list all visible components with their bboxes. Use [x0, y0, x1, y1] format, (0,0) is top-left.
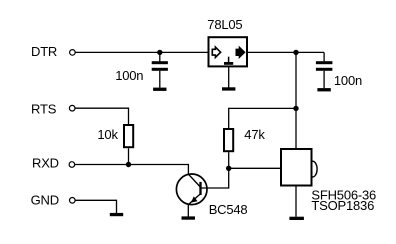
regulator output arrow (filled): [236, 47, 245, 58]
junction node A (47k feed): [293, 106, 298, 111]
terminal RXD: [69, 162, 75, 168]
ground under regulator: [222, 87, 235, 90]
IR module U2 body: [281, 149, 312, 186]
junction node Vcc top: [293, 50, 298, 55]
svg-text:DTR: DTR: [31, 44, 57, 59]
regulator internal ground symbol: [224, 57, 233, 65]
ground under IR module: [289, 217, 304, 220]
svg-text:100n: 100n: [334, 73, 362, 88]
IR module lens bump: [313, 161, 318, 177]
wire node A to 47k top: [229, 108, 296, 128]
svg-text:10k: 10k: [97, 127, 118, 142]
terminal DTR: [70, 50, 76, 56]
wire RTS to 10k top: [75, 108, 128, 125]
svg-text:100n: 100n: [115, 68, 143, 83]
terminal GND: [70, 198, 76, 204]
transistor Q1 BC548: [176, 174, 207, 205]
resistor R2 47k: [224, 129, 233, 151]
ground at emitter: [182, 216, 196, 219]
ground under C1: [153, 88, 166, 91]
wire DTR to regulator input: [75, 51, 207, 53]
resistor R1 10k: [124, 125, 133, 147]
regulator U1 78L05 box: [209, 37, 248, 66]
wire GND to ground symbol: [75, 200, 116, 213]
capacitor C2 100n: [316, 52, 333, 88]
wire node A to IR module top pin: [295, 108, 297, 149]
wire Vcc vertical to node A: [295, 52, 297, 108]
junction node RXD/10k: [126, 162, 131, 167]
wire IR module ground pin: [295, 186, 297, 217]
wire RXD to collector: [75, 165, 188, 175]
ground at GND terminal: [110, 213, 123, 216]
wire regulator output to C2: [247, 51, 324, 53]
svg-text:BC548: BC548: [209, 202, 248, 217]
svg-text:RXD: RXD: [32, 156, 59, 171]
junction node B (base/module): [226, 166, 231, 171]
ground under C2: [317, 88, 330, 91]
wire emitter to ground: [187, 204, 189, 216]
svg-text:RTS: RTS: [31, 101, 57, 116]
svg-text:47k: 47k: [244, 127, 265, 142]
junction node C1/DTR: [157, 50, 162, 55]
wire node B to IR module output pin: [229, 167, 281, 169]
terminal RTS: [69, 105, 75, 111]
wire 47k bottom to node B: [228, 152, 230, 168]
capacitor C1 100n: [152, 52, 168, 87]
wire 10k bottom to RXD line: [128, 148, 130, 164]
wire node B to transistor base: [202, 168, 229, 188]
svg-text:78L05: 78L05: [207, 17, 242, 32]
svg-text:TSOP1836: TSOP1836: [311, 198, 374, 213]
wire regulator ground lead: [228, 66, 230, 87]
svg-text:GND: GND: [31, 192, 59, 207]
regulator input arrow (open): [212, 47, 220, 57]
